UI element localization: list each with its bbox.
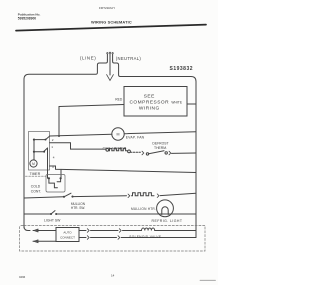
svg-text:CONT.: CONT. (31, 190, 41, 194)
svg-text:4: 4 (53, 156, 55, 160)
svg-text:MULLION HTR.: MULLION HTR. (131, 207, 156, 211)
svg-text:3: 3 (52, 165, 54, 169)
svg-text:COMPRESSOR: COMPRESSOR (129, 99, 169, 105)
svg-text:COLD: COLD (31, 184, 41, 188)
svg-text:WHITE: WHITE (171, 100, 182, 104)
svg-text:WIRING SCHEMATIC: WIRING SCHEMATIC (91, 19, 132, 24)
svg-text:DEFROST: DEFROST (152, 141, 168, 145)
svg-text:COIL HEATER: COIL HEATER (103, 146, 127, 150)
svg-text:AUTO: AUTO (63, 230, 72, 234)
svg-text:S193832: S193832 (170, 66, 194, 72)
svg-text:CONNECT: CONNECT (60, 236, 75, 240)
svg-text:1: 1 (51, 145, 53, 149)
svg-text:M: M (117, 132, 120, 136)
svg-text:2: 2 (52, 138, 54, 142)
svg-text:RED: RED (115, 98, 123, 102)
svg-text:14: 14 (111, 274, 115, 278)
svg-text:HTR. SW.: HTR. SW. (71, 206, 85, 210)
svg-text:(LINE): (LINE) (80, 56, 96, 61)
svg-text:FRT21RLH: FRT21RLH (99, 6, 115, 10)
svg-text:(NEUTRAL): (NEUTRAL) (116, 56, 142, 61)
svg-text:MULLION: MULLION (71, 202, 86, 206)
svg-text:0496: 0496 (19, 275, 26, 279)
svg-text:M: M (32, 162, 35, 166)
svg-text:THERM.: THERM. (154, 146, 167, 150)
svg-text:WIRING: WIRING (139, 105, 160, 111)
svg-text:SEE: SEE (144, 93, 155, 99)
svg-text:REFRIG. LIGHT: REFRIG. LIGHT (152, 219, 183, 223)
svg-text:SOLENOID VALVE: SOLENOID VALVE (129, 235, 161, 239)
svg-text:LIGHT SW: LIGHT SW (44, 218, 61, 222)
svg-text:EVAP. FAN: EVAP. FAN (126, 136, 145, 140)
svg-text:5995208900: 5995208900 (18, 17, 37, 21)
svg-text:TIMER: TIMER (30, 172, 41, 176)
